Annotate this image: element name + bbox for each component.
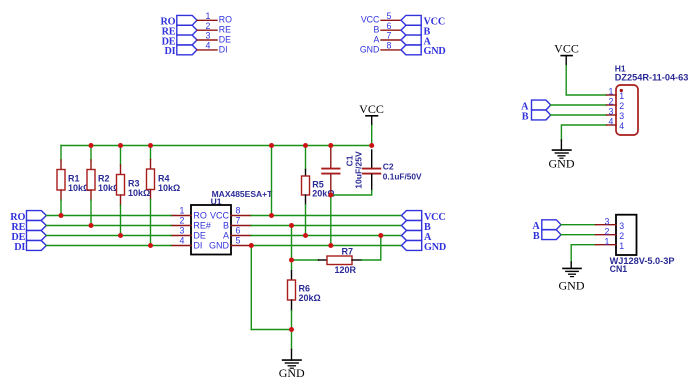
svg-text:1: 1 — [619, 91, 624, 101]
svg-text:3: 3 — [206, 31, 211, 41]
resistor R4 — [147, 160, 181, 200]
svg-text:4: 4 — [609, 117, 614, 127]
connector CN1 WJ128V-5.0-3P — [610, 215, 675, 274]
svg-text:3: 3 — [609, 107, 614, 117]
wire bus to R1 — [60, 146, 62, 161]
port flag DI — [177, 45, 197, 55]
svg-text:2: 2 — [180, 215, 185, 225]
U1 pin 6 stub — [231, 235, 251, 237]
svg-text:DI: DI — [14, 242, 25, 253]
wire bus to R5 — [305, 146, 307, 170]
U1 pin 5 stub — [231, 245, 251, 247]
port flag A (mid-right) — [402, 231, 422, 241]
wire A to CN1 pin3 — [561, 224, 596, 226]
svg-text:R7: R7 — [342, 247, 354, 257]
svg-text:1: 1 — [605, 236, 610, 246]
wire VCC to H1 pin1 — [566, 66, 606, 95]
wire VCC vertical to bus — [371, 126, 373, 146]
U1 pin 2 stub — [171, 225, 191, 227]
wire B-row tap down to R7/R6 node — [291, 226, 293, 261]
pin 8 wire — [381, 49, 401, 51]
svg-text:RO: RO — [193, 211, 207, 221]
wire H1 pin4 to ground — [561, 125, 606, 140]
svg-text:7: 7 — [236, 215, 241, 225]
wire R3 to DE row — [120, 205, 122, 236]
power port VCC (main) — [359, 102, 384, 126]
svg-text:B: B — [223, 221, 229, 231]
svg-text:VCC: VCC — [361, 15, 380, 25]
svg-text:GND: GND — [360, 44, 380, 54]
svg-text:R3: R3 — [128, 179, 140, 189]
svg-text:2: 2 — [609, 97, 614, 107]
CN1 pin 1 stub — [596, 244, 617, 246]
wire bus to R4 — [150, 146, 152, 160]
port flag DE — [177, 35, 197, 45]
junction dots on bus — [89, 143, 375, 148]
capacitor C1 — [322, 149, 363, 193]
wire node to R7 left — [292, 259, 319, 261]
port flag B (mid-right) — [402, 221, 422, 231]
svg-text:0.1uF/50V: 0.1uF/50V — [383, 171, 422, 181]
wire RO row — [46, 215, 171, 217]
wire gnd horizontal run — [251, 329, 291, 331]
wire C1 to gnd-branch — [330, 193, 332, 195]
wire A row — [251, 235, 402, 237]
wire A to H1 pin2 — [551, 104, 607, 106]
wire B to H1 pin3 — [551, 114, 607, 116]
resistor R1 — [57, 160, 90, 200]
junction dots on signal rows — [59, 193, 384, 333]
svg-text:5: 5 — [236, 235, 241, 245]
wire B row — [251, 225, 402, 227]
U1 pin 7 stub — [231, 225, 251, 227]
svg-text:GND: GND — [424, 242, 446, 253]
wire bus to R3 — [120, 146, 122, 166]
svg-text:GND: GND — [424, 46, 446, 57]
svg-text:GND: GND — [279, 366, 305, 380]
svg-text:4: 4 — [619, 121, 624, 131]
H1 pin 2 stub — [607, 104, 617, 106]
wire cap-gnd vertical to GND row — [330, 195, 332, 246]
svg-text:120R: 120R — [335, 265, 357, 275]
op-amp chip U1 MAX485ESA+T body — [191, 189, 273, 255]
port flag RO — [177, 15, 197, 25]
wire DE row — [46, 235, 171, 237]
wire U1 pin5 down — [250, 246, 252, 330]
wire R6 bottom to gnd node — [291, 311, 293, 330]
wire R2 to RE row — [90, 200, 92, 226]
svg-text:2: 2 — [619, 101, 624, 111]
wire C2 bottom corner — [331, 191, 372, 196]
svg-text:A: A — [374, 34, 380, 44]
wire GND row — [251, 245, 401, 247]
svg-text:GND: GND — [209, 241, 230, 251]
svg-text:RO: RO — [219, 15, 232, 25]
resistor R3 — [117, 165, 151, 205]
wire R7 right up to A row — [362, 236, 381, 261]
svg-text:R1: R1 — [68, 174, 80, 184]
svg-text:3: 3 — [619, 221, 624, 231]
svg-text:DI: DI — [164, 46, 175, 57]
ground (CN1 side) — [559, 262, 585, 292]
wire R1 to RO row — [60, 200, 62, 216]
svg-text:3: 3 — [180, 225, 185, 235]
svg-text:R4: R4 — [158, 174, 170, 184]
wire bus-drop to VCC row — [271, 146, 273, 216]
resistor R6 — [288, 260, 321, 311]
H1 pin 4 stub — [607, 124, 617, 126]
wire R5 to A row — [305, 205, 307, 236]
pin 5 wire (top-middle) — [381, 19, 401, 21]
svg-text:2: 2 — [619, 231, 624, 241]
svg-text:RE#: RE# — [193, 221, 211, 231]
svg-text:1: 1 — [619, 241, 624, 251]
wire gnd node down — [291, 330, 293, 350]
svg-text:1: 1 — [609, 87, 614, 97]
svg-text:6: 6 — [387, 21, 392, 31]
svg-text:VCC: VCC — [359, 102, 384, 116]
svg-text:1: 1 — [206, 11, 211, 21]
svg-text:8: 8 — [236, 205, 241, 215]
pin 1 wire (top-left) — [197, 19, 217, 21]
svg-text:B: B — [374, 25, 380, 35]
pin 7 wire — [381, 39, 401, 41]
U1 pin 4 stub — [171, 245, 191, 247]
CN1 pin 2 stub — [596, 234, 617, 236]
svg-text:C2: C2 — [383, 162, 394, 172]
svg-text:20kΩ: 20kΩ — [299, 293, 321, 303]
svg-text:4: 4 — [206, 41, 211, 51]
power port VCC (H1 side) — [554, 42, 579, 66]
svg-text:B: B — [522, 111, 529, 122]
wire CN1 pin1 to ground — [571, 245, 595, 262]
svg-text:2: 2 — [605, 226, 610, 236]
wire B to CN1 pin2 — [561, 234, 596, 236]
H1 pin 1 stub — [607, 94, 617, 96]
port flag RE — [177, 25, 197, 35]
svg-text:RE: RE — [219, 25, 231, 35]
svg-text:VCC: VCC — [210, 211, 230, 221]
svg-text:VCC: VCC — [554, 42, 579, 56]
CN1 pin 3 stub — [596, 224, 617, 226]
wire VCC bus horizontal — [61, 145, 372, 147]
H1 pin 3 stub — [607, 114, 617, 116]
ground (H1 side) — [549, 140, 575, 171]
svg-text:7: 7 — [387, 31, 392, 41]
port flag A — [401, 35, 421, 45]
svg-text:5: 5 — [387, 11, 392, 21]
svg-text:CN1: CN1 — [610, 264, 628, 274]
svg-text:3: 3 — [619, 111, 624, 121]
U1 pin 1 stub — [171, 215, 191, 217]
svg-text:R2: R2 — [98, 174, 110, 184]
svg-text:10kΩ: 10kΩ — [158, 183, 180, 193]
pin 2 wire — [197, 29, 217, 31]
ground (main) — [279, 350, 305, 381]
svg-text:1: 1 — [180, 205, 185, 215]
svg-text:GND: GND — [559, 278, 585, 292]
port flag VCC (mid-right) — [402, 211, 422, 221]
port flag GND (mid-right) — [402, 241, 422, 251]
pin 3 wire — [197, 39, 217, 41]
svg-text:B: B — [533, 231, 540, 242]
resistor R5 — [302, 170, 335, 205]
capacitor C2 — [363, 150, 422, 191]
U1 pin 3 stub — [171, 235, 191, 237]
wire bus to C1 — [330, 146, 332, 150]
svg-text:GND: GND — [549, 157, 575, 171]
port flag VCC (top-middle) — [401, 15, 421, 25]
svg-text:4: 4 — [180, 235, 185, 245]
svg-text:DE: DE — [219, 34, 231, 44]
svg-text:A: A — [223, 231, 229, 241]
wire bus to R2 — [90, 146, 92, 161]
svg-text:DE: DE — [193, 231, 206, 241]
connector H1 DZ254R-11-04-63 — [615, 64, 689, 135]
port flag GND — [401, 45, 421, 55]
svg-text:3: 3 — [605, 216, 610, 226]
pin 4 wire — [197, 49, 217, 51]
svg-text:8: 8 — [387, 41, 392, 51]
svg-text:6: 6 — [236, 225, 241, 235]
port flag B — [401, 25, 421, 35]
pin 6 wire — [381, 29, 401, 31]
svg-text:10uF/25V: 10uF/25V — [354, 151, 364, 189]
wire DI row — [46, 245, 171, 247]
U1 pin 8 stub — [231, 215, 251, 217]
wire R4 to DI row — [150, 200, 152, 246]
svg-text:DI: DI — [219, 44, 228, 54]
resistor R2 — [87, 160, 120, 200]
wire RE row — [46, 225, 171, 227]
svg-text:DI: DI — [193, 241, 202, 251]
resistor R7 — [319, 247, 362, 276]
svg-text:DZ254R-11-04-63: DZ254R-11-04-63 — [615, 73, 689, 83]
svg-text:2: 2 — [206, 21, 211, 31]
wire VCC row (U1 pin8 to port) — [251, 215, 402, 217]
